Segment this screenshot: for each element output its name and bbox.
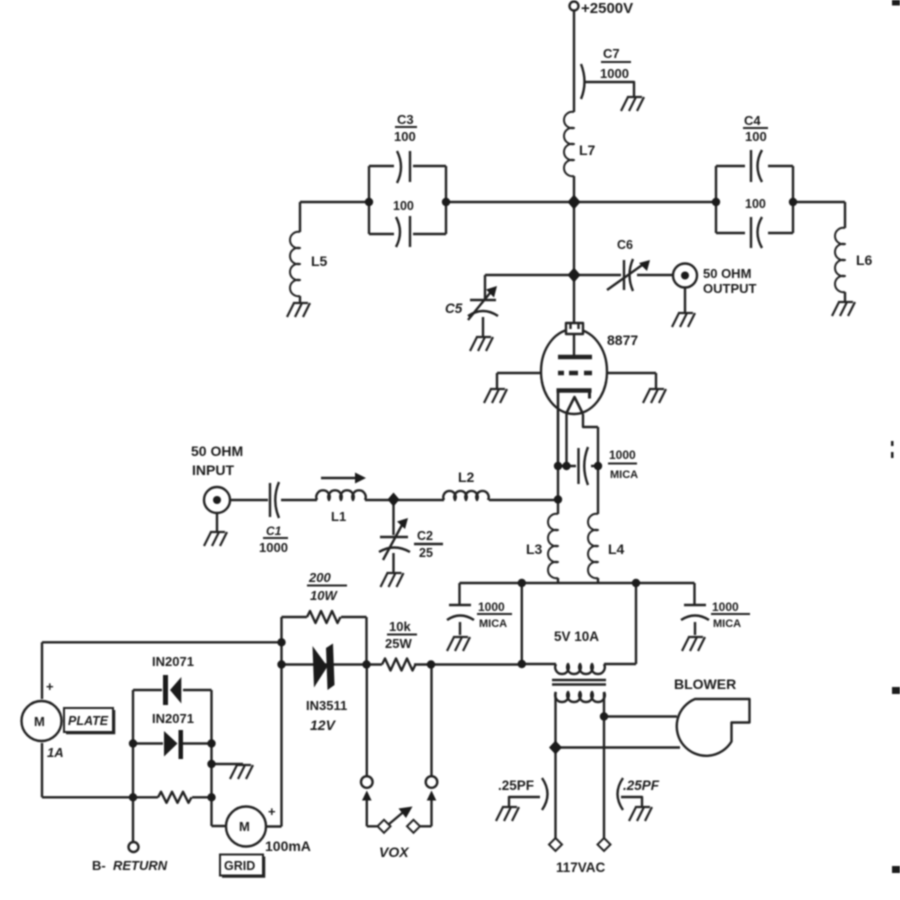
svg-text:50 OHM: 50 OHM	[703, 266, 751, 281]
svg-text:PLATE: PLATE	[68, 714, 109, 728]
svg-text:RETURN: RETURN	[113, 858, 168, 873]
svg-text:L1: L1	[331, 509, 346, 524]
svg-text:25: 25	[419, 546, 433, 560]
svg-text:L7: L7	[579, 142, 596, 158]
svg-text:MICA: MICA	[479, 618, 507, 630]
svg-text:MICA: MICA	[713, 618, 741, 630]
svg-text:8877: 8877	[607, 332, 638, 348]
svg-text:.25PF: .25PF	[498, 778, 534, 793]
svg-text:12V: 12V	[310, 717, 337, 733]
svg-text:IN3511: IN3511	[306, 698, 347, 713]
svg-text:C2: C2	[417, 529, 433, 543]
svg-text:B-: B-	[92, 858, 106, 873]
svg-text:25W: 25W	[385, 636, 412, 651]
svg-text:L5: L5	[311, 253, 328, 269]
svg-text:IN2071: IN2071	[152, 654, 194, 669]
svg-text:BLOWER: BLOWER	[674, 676, 736, 692]
svg-text:L4: L4	[608, 541, 625, 557]
svg-text:M: M	[34, 714, 45, 729]
svg-text:M: M	[239, 819, 250, 834]
svg-text:100: 100	[393, 199, 414, 213]
svg-text:10W: 10W	[310, 588, 338, 603]
svg-text:100mA: 100mA	[265, 838, 311, 854]
svg-text:1000: 1000	[609, 448, 636, 462]
svg-text:IN2071: IN2071	[152, 711, 194, 726]
svg-text:1000: 1000	[478, 600, 505, 614]
svg-text:+: +	[268, 804, 276, 819]
svg-text:1000: 1000	[600, 66, 629, 81]
svg-text:100: 100	[745, 197, 766, 211]
svg-text:C3: C3	[397, 112, 414, 127]
svg-text:117VAC: 117VAC	[556, 860, 606, 875]
svg-text:+2500V: +2500V	[581, 0, 633, 17]
svg-text:L3: L3	[526, 541, 543, 557]
svg-text:1A: 1A	[47, 745, 64, 760]
svg-text:1000: 1000	[259, 540, 288, 555]
svg-text:100: 100	[394, 129, 416, 144]
svg-text:VOX: VOX	[379, 844, 410, 860]
svg-text:200: 200	[308, 570, 331, 585]
svg-text:L2: L2	[458, 469, 475, 485]
svg-text:C1: C1	[266, 524, 282, 538]
svg-text:INPUT: INPUT	[192, 462, 234, 478]
svg-text:C5: C5	[445, 301, 463, 316]
svg-text:100: 100	[745, 129, 767, 144]
svg-text:1000: 1000	[712, 600, 739, 614]
svg-text:C7: C7	[603, 46, 620, 61]
svg-text:GRID: GRID	[224, 859, 255, 873]
svg-text:5V 10A: 5V 10A	[554, 629, 599, 644]
svg-text:MICA: MICA	[610, 469, 638, 481]
svg-text:L6: L6	[856, 252, 873, 268]
svg-text:OUTPUT: OUTPUT	[703, 281, 757, 296]
svg-text:.25PF: .25PF	[623, 778, 660, 793]
svg-text:+: +	[46, 679, 54, 694]
svg-text:C6: C6	[617, 238, 633, 252]
svg-text:50 OHM: 50 OHM	[191, 443, 243, 459]
svg-text:10k: 10k	[389, 619, 411, 634]
svg-text:C4: C4	[744, 113, 761, 128]
